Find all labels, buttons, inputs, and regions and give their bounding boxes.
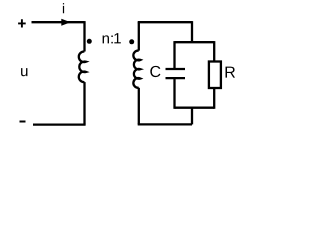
wire resistor lower lead [213, 88, 215, 109]
label - (minus terminal) [20, 121, 26, 123]
polarity dot secondary [129, 39, 134, 44]
wire capacitor lower lead [173, 79, 175, 109]
label C [150, 66, 160, 77]
current arrow i [61, 19, 70, 26]
wire primary vertical bottom [83, 82, 85, 125]
wire top stub to RC network [191, 21, 193, 42]
label i [63, 3, 64, 13]
polarity dot primary [87, 39, 92, 44]
wire resistor upper lead [213, 41, 215, 61]
label R [226, 67, 235, 78]
label + (plus terminal) [18, 19, 26, 27]
wire bottom stub [191, 108, 193, 125]
wire secondary bottom horizontal [138, 123, 192, 125]
wire top rail of RC loop [175, 41, 215, 43]
resistor R box [209, 62, 221, 89]
label n:1 (1) [114, 33, 120, 43]
label n:1 (:) [111, 35, 112, 43]
label u [21, 68, 27, 76]
inductor L1 primary winding [79, 51, 86, 82]
wire top-left from + terminal [32, 21, 85, 23]
label n:1 (n) [103, 35, 109, 43]
wire secondary top horizontal [138, 21, 192, 23]
wire primary vertical top [83, 21, 85, 51]
wire bottom rail of RC loop [175, 107, 215, 109]
wire secondary vertical bottom [138, 88, 140, 125]
wire capacitor upper lead [173, 41, 175, 68]
inductor L2 secondary winding [133, 51, 140, 88]
wire bottom-left to - terminal [33, 123, 86, 125]
wire secondary vertical top [138, 22, 140, 50]
capacitor C plates [166, 69, 186, 78]
